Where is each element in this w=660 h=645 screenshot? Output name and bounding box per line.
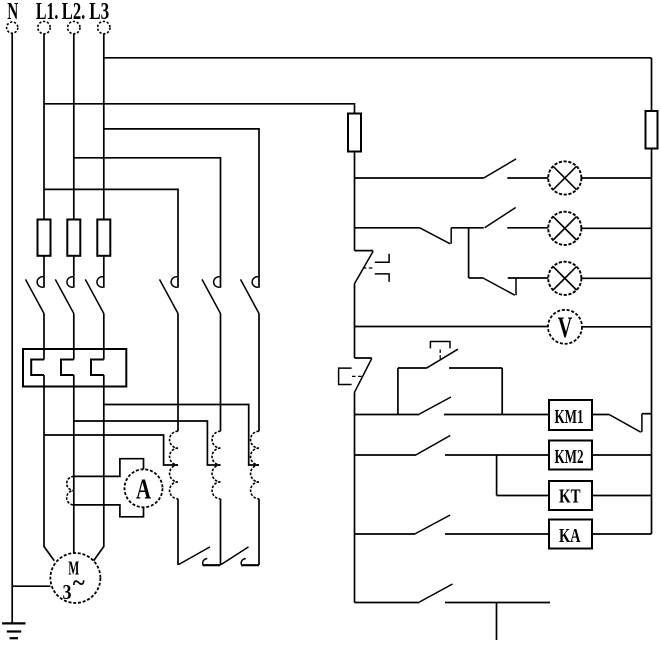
svg-text:A: A xyxy=(136,475,152,506)
wire row1 mid xyxy=(507,177,548,179)
wire L1 contact to FR xyxy=(43,314,45,360)
pushbutton SB1 (NC stop) xyxy=(355,251,390,284)
wire KM2-KT riser xyxy=(496,455,498,496)
wire L2 tap link xyxy=(74,421,221,465)
fuse FU2 xyxy=(67,220,80,256)
svg-text:KM1: KM1 xyxy=(555,406,584,428)
NC interlock contact KM2 xyxy=(609,414,651,433)
NO contact KM2 row xyxy=(416,436,450,455)
motor M 3~ xyxy=(50,553,100,604)
NC contact row3 xyxy=(484,278,516,295)
wire start branch riser right xyxy=(501,368,503,415)
contactor KM2 contact 2 xyxy=(202,277,221,314)
voltmeter PV xyxy=(548,310,582,344)
svg-text:KA: KA xyxy=(559,525,581,547)
autotransformer winding 1 xyxy=(170,314,178,566)
contactor KM2 contact 3 xyxy=(241,277,260,314)
wire start branch riser left xyxy=(397,368,399,415)
wire L1 fuse to contact xyxy=(43,256,45,288)
wire KA row right xyxy=(592,533,652,535)
NO contact bottom row xyxy=(420,584,453,602)
wire L3 fuse to contact xyxy=(103,256,105,288)
wire row2 mid2 xyxy=(507,227,548,229)
wire L1 tap link xyxy=(44,435,178,465)
wire L3 contact to FR xyxy=(103,314,105,360)
svg-text:KT: KT xyxy=(559,486,581,508)
star contact KM2-b xyxy=(221,547,259,565)
star contact KM2-a xyxy=(179,547,221,565)
current transformer TA xyxy=(67,476,74,505)
wire row3 right xyxy=(581,277,651,279)
wire bottom stub xyxy=(496,603,498,641)
relay coil KA xyxy=(549,520,592,549)
wire KM2 row mid xyxy=(445,454,549,456)
ammeter PA xyxy=(125,469,163,507)
wire N to motor xyxy=(12,585,50,587)
wire L1 to control fuse xyxy=(44,104,355,114)
contactor KM1 main contact L3 xyxy=(85,277,104,314)
svg-text:KM2: KM2 xyxy=(555,446,584,468)
relay coil KM2 xyxy=(549,441,592,470)
contactor KM2 contact 1 xyxy=(160,277,179,314)
wire L2 upper xyxy=(73,34,75,220)
wire top rail xyxy=(104,57,652,59)
thermal overload relay FR box xyxy=(23,349,126,387)
wire KA row mid xyxy=(445,533,549,535)
terminal L2 xyxy=(68,21,80,33)
wire N vertical xyxy=(11,33,13,623)
wire L3 tap link xyxy=(104,405,259,466)
svg-text:L1.: L1. xyxy=(36,0,59,25)
contactor KM1 main contact L1 xyxy=(26,277,45,314)
wire L1 lower xyxy=(44,375,54,561)
wire bottom row right xyxy=(445,602,550,604)
wire row3 mid xyxy=(508,277,549,279)
autotransformer winding 3 xyxy=(251,314,259,566)
wire row2 mid1 xyxy=(451,227,484,229)
fuse FU1 xyxy=(38,220,51,256)
wire L2 fuse to contact xyxy=(73,256,75,288)
wire KM1 row left xyxy=(355,414,420,416)
wire left rail seg3 xyxy=(354,392,356,602)
terminal L1 xyxy=(38,21,50,33)
FR heater element L3 xyxy=(91,360,104,376)
wire L3 branch xyxy=(104,129,259,288)
wire row4 left xyxy=(355,326,549,328)
wire L1 branch xyxy=(44,189,178,287)
wire KM2 row right xyxy=(592,454,652,456)
wire start branch top right xyxy=(449,367,502,369)
wire row2 right xyxy=(581,227,651,229)
wire L2 lower xyxy=(73,375,75,553)
FR heater element L2 xyxy=(61,360,74,376)
wire L1 upper xyxy=(43,34,45,220)
wire KM1 row mid xyxy=(444,414,549,416)
wire KA row left xyxy=(355,533,416,535)
wire row4 right xyxy=(582,326,652,328)
FR heater element L1 xyxy=(31,360,44,376)
wire row3 left xyxy=(469,277,484,279)
wire KT row left xyxy=(497,495,549,497)
fuse FU3 xyxy=(97,220,110,256)
relay coil KM1 xyxy=(549,400,592,430)
wire KM1 row right xyxy=(592,414,609,416)
wire right rail upper xyxy=(651,58,653,111)
pushbutton SB3 (NO start) xyxy=(426,342,458,369)
wire KT row right xyxy=(592,495,652,497)
wire KM2 row left xyxy=(355,454,417,456)
NO contact KA row xyxy=(415,515,450,534)
fuse FU5 xyxy=(646,111,658,149)
svg-text:3: 3 xyxy=(63,580,72,604)
pushbutton SB2 (NC stop) xyxy=(339,358,372,392)
lamp HL3 xyxy=(548,262,581,295)
wire row1 left xyxy=(355,177,484,179)
wire row2-row3 riser xyxy=(468,228,470,278)
wire start branch top left xyxy=(398,367,427,369)
NC contact row2 xyxy=(420,228,452,244)
wire right rail lower xyxy=(651,149,653,535)
lamp HL1 xyxy=(548,161,581,194)
wire L2 branch xyxy=(74,158,221,288)
wire left rail seg2 xyxy=(354,284,356,359)
svg-text:L3: L3 xyxy=(89,0,109,25)
wire bottom row left xyxy=(355,602,420,604)
NO contact row2 xyxy=(485,208,516,228)
wire L3 upper xyxy=(103,34,105,220)
contactor KM1 main contact L2 xyxy=(55,277,74,314)
ground xyxy=(2,623,25,638)
NO contact KM1 row xyxy=(420,397,452,414)
wire CT to ammeter bottom xyxy=(74,505,144,517)
svg-text:V: V xyxy=(558,311,573,344)
wire row2 left xyxy=(355,227,420,229)
svg-text:N: N xyxy=(7,0,18,25)
terminal L3 xyxy=(98,21,110,33)
fuse FU4 xyxy=(348,114,361,152)
terminal N xyxy=(7,22,18,33)
autotransformer winding 2 xyxy=(212,314,220,566)
wire left rail seg1 xyxy=(354,152,356,251)
relay coil KT xyxy=(549,481,592,510)
wire CT to ammeter top xyxy=(74,459,144,477)
lamp HL2 xyxy=(548,212,581,245)
switch contact row1 xyxy=(484,159,516,178)
wire L2 contact to FR xyxy=(73,314,75,360)
wire L3 lower xyxy=(94,375,104,561)
svg-text:~: ~ xyxy=(73,570,85,597)
wire row1 right xyxy=(581,177,651,179)
